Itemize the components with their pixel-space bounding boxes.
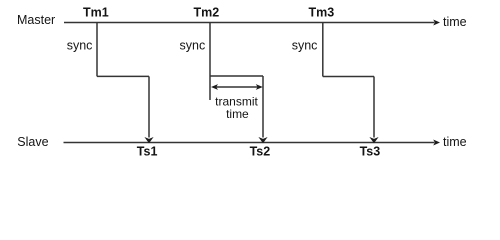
arrowhead sync 3 onto slave [369,137,378,143]
svg-text:Tm2: Tm2 [194,5,220,19]
svg-text:sync: sync [180,39,206,53]
wire sync drop 3 horizontal [323,76,374,78]
svg-text:Master: Master [17,13,55,27]
svg-text:sync: sync [292,39,318,53]
wire sync drop 1 vertical to slave [148,76,150,137]
arrowhead sync 2 onto slave [258,137,267,143]
wire sync drop 2 vertical from Tm2 [209,23,211,101]
svg-text:time: time [226,107,249,121]
wire sync drop 2 vertical to slave [262,76,264,138]
wire sync drop 1 horizontal [97,75,149,77]
arrowhead transmit time left [211,84,218,90]
svg-text:sync: sync [67,39,93,53]
arrowhead master time axis [433,20,440,26]
arrowhead sync 1 onto slave [144,137,153,143]
wire sync drop 2 horizontal [210,75,263,77]
wire sync drop 3 vertical to slave [373,77,375,138]
wire sync drop 1 vertical from Tm1 [96,23,98,77]
svg-text:Tm1: Tm1 [83,5,109,19]
svg-text:Tm3: Tm3 [309,5,335,19]
wire slave timeline [64,142,435,144]
arrowhead transmit time right [256,84,263,90]
svg-text:Ts2: Ts2 [250,144,271,158]
wire sync drop 3 vertical from Tm3 [322,23,324,77]
svg-text:time: time [443,15,467,29]
arrowhead slave time axis [433,140,440,146]
svg-text:time: time [443,135,467,149]
svg-text:Ts1: Ts1 [137,144,158,158]
wire master timeline [64,22,435,24]
svg-text:Slave: Slave [17,135,48,149]
wire transmit time measure shaft [214,86,260,88]
svg-text:Ts3: Ts3 [360,144,381,158]
